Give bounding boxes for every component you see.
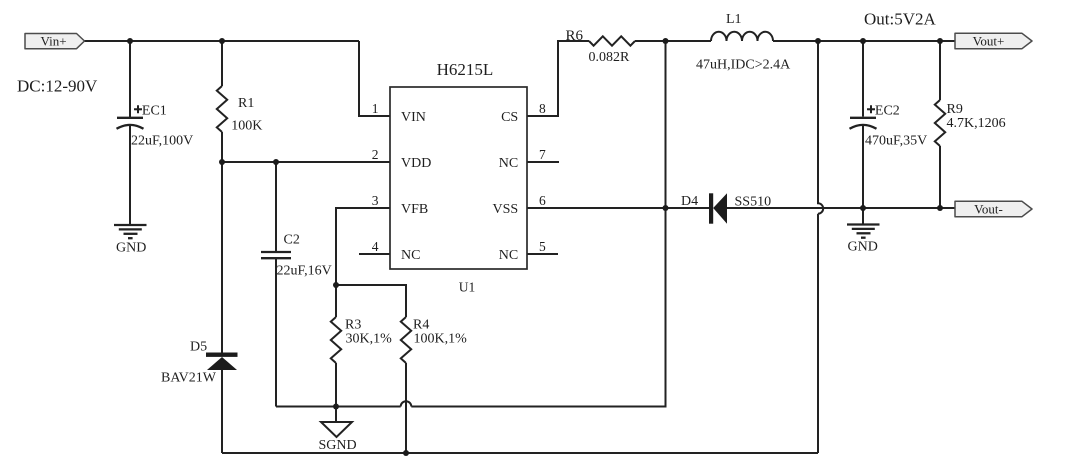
- svg-text:4.7K,1206: 4.7K,1206: [947, 116, 1006, 131]
- svg-text:H6215L: H6215L: [437, 60, 494, 79]
- svg-text:2: 2: [372, 147, 379, 162]
- svg-text:470uF,35V: 470uF,35V: [865, 133, 927, 148]
- svg-text:100K,1%: 100K,1%: [414, 332, 468, 347]
- svg-text:Out:5V2A: Out:5V2A: [864, 10, 937, 29]
- svg-text:Vout+: Vout+: [973, 33, 1005, 48]
- svg-text:5: 5: [539, 239, 546, 254]
- svg-text:NC: NC: [499, 248, 518, 263]
- svg-text:+EC1: +EC1: [134, 103, 167, 118]
- svg-text:0.082R: 0.082R: [589, 50, 631, 65]
- svg-text:R6: R6: [566, 28, 584, 44]
- svg-text:DC:12-90V: DC:12-90V: [17, 76, 98, 95]
- svg-text:VIN: VIN: [401, 110, 426, 125]
- svg-text:6: 6: [539, 193, 546, 208]
- svg-text:Vout-: Vout-: [974, 201, 1003, 216]
- svg-text:D5: D5: [190, 340, 207, 355]
- svg-text:GND: GND: [116, 240, 146, 255]
- svg-text:1: 1: [372, 101, 379, 116]
- svg-text:R3: R3: [345, 318, 361, 333]
- svg-text:U1: U1: [459, 280, 476, 295]
- svg-text:BAV21W: BAV21W: [161, 370, 217, 385]
- svg-text:7: 7: [539, 147, 546, 162]
- svg-text:L1: L1: [726, 12, 742, 27]
- svg-text:47uH,IDC>2.4A: 47uH,IDC>2.4A: [696, 58, 791, 73]
- svg-text:VSS: VSS: [493, 202, 519, 217]
- svg-text:CS: CS: [501, 110, 518, 125]
- svg-text:Vin+: Vin+: [40, 33, 66, 48]
- svg-text:30K,1%: 30K,1%: [346, 332, 393, 347]
- svg-text:100K: 100K: [231, 119, 262, 134]
- svg-text:3: 3: [372, 193, 379, 208]
- svg-text:SGND: SGND: [319, 438, 357, 453]
- svg-text:+EC2: +EC2: [867, 103, 900, 118]
- svg-text:NC: NC: [499, 156, 518, 171]
- svg-text:D4: D4: [681, 194, 698, 209]
- svg-text:22uF,16V: 22uF,16V: [277, 263, 332, 278]
- svg-text:8: 8: [539, 101, 546, 116]
- svg-text:4: 4: [372, 239, 379, 254]
- svg-text:VDD: VDD: [401, 156, 431, 171]
- svg-text:R1: R1: [238, 96, 254, 111]
- svg-text:GND: GND: [848, 240, 878, 255]
- svg-text:C2: C2: [284, 232, 300, 247]
- svg-text:R9: R9: [947, 102, 963, 117]
- svg-text:R4: R4: [413, 318, 429, 333]
- svg-text:VFB: VFB: [401, 202, 428, 217]
- svg-text:22uF,100V: 22uF,100V: [131, 134, 193, 149]
- svg-text:NC: NC: [401, 248, 420, 263]
- svg-text:SS510: SS510: [735, 195, 772, 210]
